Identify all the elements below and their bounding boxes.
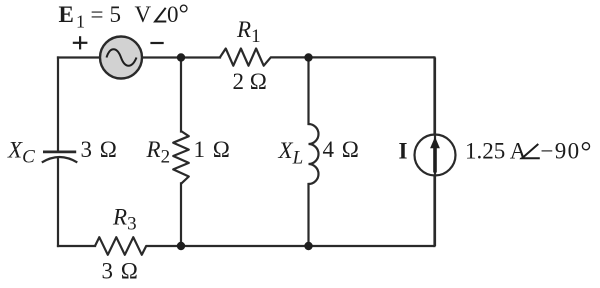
svg-text:XL: XL (278, 138, 304, 169)
svg-text:R1: R1 (236, 17, 261, 47)
svg-text:V: V (135, 2, 152, 27)
svg-text:I: I (399, 139, 408, 164)
svg-text:E: E (59, 2, 74, 27)
svg-text:=: = (91, 2, 104, 27)
svg-text:3 Ω: 3 Ω (102, 259, 138, 284)
svg-text:R3: R3 (112, 205, 137, 235)
svg-text:4 Ω: 4 Ω (323, 137, 359, 162)
svg-text:5: 5 (110, 2, 122, 27)
svg-text:0°: 0° (167, 0, 189, 28)
svg-text:XC: XC (7, 138, 35, 168)
svg-text:1: 1 (76, 12, 85, 32)
svg-text:−90°: −90° (541, 137, 593, 168)
svg-text:1.25 A: 1.25 A (465, 139, 527, 164)
svg-text:3 Ω: 3 Ω (81, 137, 117, 162)
svg-text:1 Ω: 1 Ω (194, 137, 230, 162)
svg-text:2 Ω: 2 Ω (233, 69, 267, 94)
svg-text:R2: R2 (146, 137, 171, 168)
